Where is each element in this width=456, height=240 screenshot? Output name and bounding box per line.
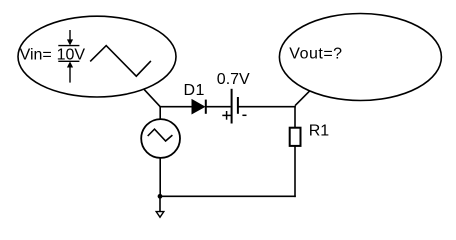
ground stem	[159, 196, 161, 211]
battery B1: short plate	[237, 97, 239, 114]
diode D1	[192, 100, 206, 114]
wire diode to battery	[206, 106, 231, 108]
voltage source V1 (AC, triangle)	[141, 119, 180, 158]
wire R1 bottom to corner	[294, 146, 296, 197]
battery B1 (0.7V): long plate	[231, 89, 233, 124]
wire node B down to R1	[294, 106, 296, 128]
svg-text:Vout=?: Vout=?	[289, 46, 342, 63]
dimension arrow above 10	[58, 30, 79, 46]
waveform sketch (triangle wave)	[90, 46, 151, 77]
svg-text:0.7V: 0.7V	[217, 71, 250, 88]
dimension arrow below 10	[58, 61, 79, 82]
resistor R1	[290, 128, 301, 146]
balloon tail (Vin)	[144, 89, 160, 107]
svg-text:D1: D1	[184, 82, 205, 99]
wire source bottom to junction	[159, 158, 161, 197]
svg-text:Vin=: Vin=	[20, 47, 52, 64]
balloon ellipse (Vout annotation)	[279, 14, 441, 101]
battery + terminal mark	[222, 111, 231, 120]
wire source top to node A	[159, 106, 161, 119]
wire node A to diode anode	[159, 106, 191, 108]
wire battery to node B	[238, 106, 296, 108]
balloon tail (Vout)	[295, 91, 310, 106]
balloon ellipse (Vin annotation)	[18, 16, 176, 97]
junction dot	[158, 194, 163, 199]
battery - terminal mark	[242, 114, 246, 116]
ground symbol (open arrow)	[156, 212, 164, 218]
svg-text:R1: R1	[309, 122, 330, 139]
bottom return wire	[160, 195, 296, 197]
